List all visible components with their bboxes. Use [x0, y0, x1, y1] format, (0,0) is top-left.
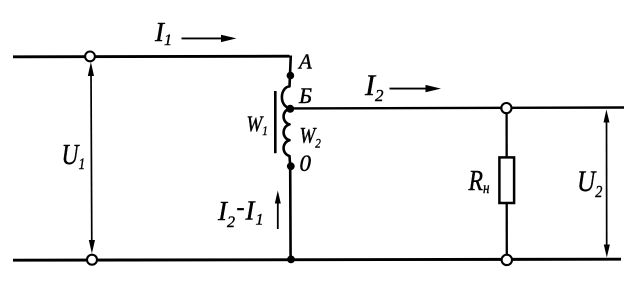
svg-text:1: 1	[256, 212, 264, 229]
svg-text:W1: W1	[247, 113, 268, 138]
svg-text:W2: W2	[300, 124, 321, 150]
junction dot bottom branch	[287, 256, 295, 264]
arrow for current I1	[182, 35, 237, 42]
terminal circle bottom-left	[87, 255, 97, 265]
svg-text:2: 2	[227, 214, 235, 231]
wire: bottom line	[13, 259, 621, 260]
junction dot node Б	[286, 105, 294, 113]
wire: vertical branch A-Б-0 with winding bumps	[282, 56, 291, 260]
svg-text:A: A	[297, 50, 312, 74]
resistor Rн body	[499, 157, 514, 203]
arrow for current I2	[390, 85, 442, 92]
transformer core bar	[274, 91, 277, 153]
label U2	[577, 164, 602, 201]
terminal circle top-left	[85, 52, 95, 62]
svg-text:0: 0	[300, 151, 312, 176]
svg-text:-: -	[237, 195, 245, 221]
svg-text:I2: I2	[364, 69, 384, 105]
dimension arrow U2 (double headed, right side)	[604, 110, 610, 258]
label winding W2	[300, 124, 321, 150]
wire: top input line from left terminal to corner A	[13, 55, 290, 58]
label winding W1	[247, 113, 268, 138]
label Rн	[468, 164, 490, 198]
label U1	[62, 139, 86, 173]
dimension arrow U1 (double headed, between left terminals)	[88, 62, 95, 254]
svg-text:Б: Б	[298, 83, 312, 108]
terminal circle bottom-right	[502, 255, 512, 265]
svg-text:I1: I1	[154, 17, 172, 49]
wire: load branch vertical	[505, 108, 507, 260]
arrow for current I2-I1 (upward)	[275, 191, 281, 230]
svg-text:U2: U2	[577, 164, 602, 201]
svg-text:U1: U1	[62, 139, 86, 173]
junction dot node A	[287, 72, 295, 80]
wire: middle line from node Б to right edge	[290, 106, 624, 109]
terminal circle top-right	[501, 103, 511, 113]
svg-text:Rн: Rн	[468, 164, 490, 198]
junction dot node 0	[287, 162, 295, 170]
